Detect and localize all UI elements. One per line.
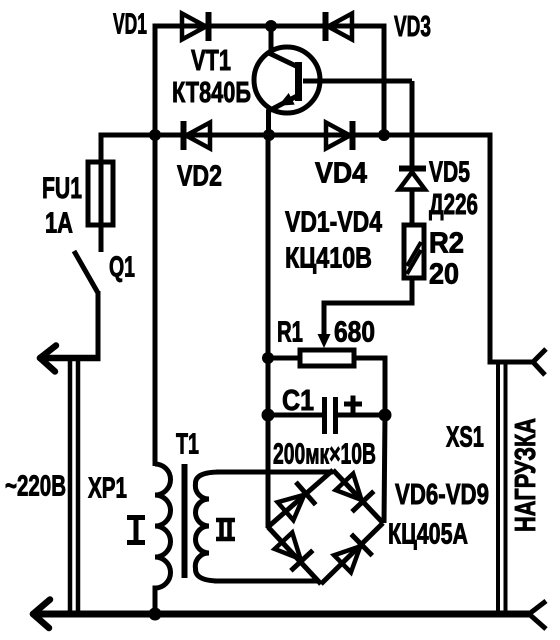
socket XS1 contact lines [498, 362, 506, 615]
diode VD3 [326, 12, 353, 41]
diode VD1 [182, 12, 209, 41]
junction emitter / second bus [263, 129, 275, 141]
transformer T1 secondary winding II [195, 472, 220, 581]
svg-text:НАГРУЗКА: НАГРУЗКА [510, 418, 542, 532]
wire wiper drop x=324 into R1 [322, 301, 327, 338]
junction VD3 riser / second bus [378, 129, 390, 141]
svg-text:VD1: VD1 [113, 9, 147, 41]
svg-text:VT1: VT1 [191, 45, 231, 77]
transformer T1 core [182, 464, 188, 578]
svg-text:VD3: VD3 [394, 11, 431, 43]
svg-text:20: 20 [429, 259, 459, 291]
wire fuse drop x=101 through FU1 body [99, 133, 104, 252]
svg-text:680: 680 [334, 317, 375, 349]
wire VD5 to R2 [410, 189, 415, 225]
socket XS1 fork top [533, 349, 546, 375]
diode VD2 [184, 121, 211, 150]
svg-text:КЦ405А: КЦ405А [388, 519, 468, 551]
junction C1 left / middle rail [262, 409, 275, 422]
transistor VT1 base bar [295, 62, 302, 101]
wire right corner riser x=384 (VD3 to second bus) [382, 24, 387, 137]
wire R1 left lead [268, 356, 300, 361]
wire R2 bottom to wiper run [322, 278, 413, 303]
junction primary bottom / bottom bus [149, 608, 162, 621]
svg-text:VD2: VD2 [177, 161, 222, 193]
svg-text:~220В: ~220В [5, 471, 66, 503]
wire base drop x=412 to VD5 [410, 81, 415, 167]
svg-text:R1: R1 [277, 317, 303, 349]
wire C1 right lead y=415 [337, 413, 385, 418]
svg-text:Q1: Q1 [109, 252, 135, 284]
bridge VD6-VD9 diamond sides [268, 470, 383, 584]
svg-text:200мк×10В: 200мк×10В [273, 439, 376, 471]
label winding I (roman numeral) [127, 517, 145, 543]
socket XS1 fork bottom [529, 601, 546, 629]
wire base lead y=81 [303, 79, 412, 84]
junction node A (left riser / second bus) [149, 129, 161, 141]
wire second bus y=135 (fuse node to output rail) [99, 133, 493, 138]
wire left riser x=155 from top bus through node A down to transformer primary [153, 24, 158, 466]
wire emitter drop to second bus [269, 96, 298, 137]
switch Q1 blade [74, 251, 98, 293]
resistor R1 wiper arrowhead [318, 334, 331, 348]
wire mains top lead y=357 [40, 355, 101, 362]
svg-text:Т1: Т1 [176, 429, 199, 461]
wire middle rail x=268 (emitter node down to bridge minus vertex) [266, 135, 271, 528]
transistor VT1 circle [254, 47, 320, 113]
fuse FU1 body [88, 162, 113, 225]
svg-text:XS1: XS1 [446, 422, 484, 454]
bridge diode VD9 (lower-right arm) [332, 534, 372, 574]
svg-text:КТ840Б: КТ840Б [172, 77, 251, 109]
wire top bus (VD1-VD3 row) [153, 24, 387, 29]
diode VD5 [399, 169, 426, 190]
capacitor C1 plates [325, 397, 336, 434]
wire bottom bus y=614 [35, 611, 529, 618]
resistor R1 body (rheostat) [300, 350, 354, 366]
wire R1 right lead and right mid rail x=385 down to bridge plus vertex [354, 358, 385, 523]
diode VD4 [326, 121, 353, 150]
svg-text:XP1: XP1 [88, 473, 127, 505]
plug XP1 arrow bottom [33, 600, 50, 629]
plug XP1 arrow top [40, 346, 56, 372]
transformer T1 primary winding I [155, 464, 171, 616]
svg-text:VD6-VD9: VD6-VD9 [395, 479, 489, 511]
capacitor C1 polarity plus [344, 396, 362, 413]
svg-text:КЦ410В: КЦ410В [285, 243, 372, 275]
wire secondary bottom lead y=584 to bridge bottom vertex [214, 579, 318, 584]
plug XP1 pin lines [70, 357, 78, 614]
svg-text:VD4: VD4 [315, 158, 367, 190]
junction C1 right / right mid rail [379, 409, 392, 422]
svg-text:VD1-VD4: VD1-VD4 [285, 207, 382, 239]
svg-text:FU1: FU1 [42, 172, 82, 205]
bridge diode VD7 (upper-right arm) [333, 472, 373, 512]
resistor R2 power slashes [407, 242, 421, 274]
junction R1 left / middle rail [262, 352, 274, 364]
wire collector stub x=271 [271, 24, 296, 66]
wire C1 left lead y=415 [268, 413, 322, 418]
svg-text:VD5: VD5 [429, 157, 470, 189]
svg-text:R2: R2 [429, 228, 464, 260]
svg-text:C1: C1 [282, 385, 314, 417]
resistor R2 body [404, 225, 424, 278]
wire secondary top lead y=471 to bridge top vertex [216, 470, 333, 475]
label winding II (roman numeral) [216, 520, 235, 539]
bridge diode VD6 (upper-left arm) [276, 482, 316, 522]
wire right rail x=490 (output to XS1 top) [490, 133, 533, 362]
wire switch lower lead x=98 [96, 291, 101, 360]
bridge diode VD8 (lower-left arm) [272, 531, 312, 571]
svg-text:Д226: Д226 [429, 189, 478, 221]
junction collector / top bus [265, 20, 277, 32]
svg-text:1А: 1А [45, 208, 73, 240]
transistor VT1 emitter arrow [278, 93, 294, 106]
